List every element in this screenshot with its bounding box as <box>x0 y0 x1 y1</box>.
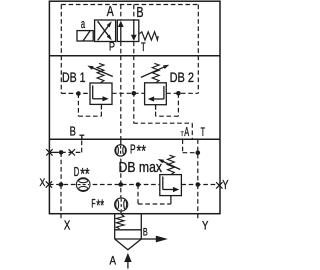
svg-text:D: D <box>74 165 80 179</box>
svg-text:B: B <box>143 227 148 239</box>
svg-text:A: A <box>110 256 117 268</box>
svg-text:F: F <box>91 199 95 211</box>
svg-text:DB 1: DB 1 <box>62 69 86 85</box>
svg-text:a: a <box>81 17 85 31</box>
svg-text:**: ** <box>80 165 90 183</box>
svg-text:T: T <box>201 125 206 139</box>
svg-text:A: A <box>184 125 189 139</box>
svg-text:DB max: DB max <box>119 160 163 176</box>
svg-text:A: A <box>107 3 114 20</box>
svg-text:B: B <box>136 4 143 21</box>
svg-text:P: P <box>130 142 136 156</box>
svg-text:X: X <box>40 177 46 189</box>
svg-text:Y: Y <box>222 178 229 192</box>
svg-text:T: T <box>141 42 146 54</box>
svg-text:P: P <box>109 40 115 54</box>
svg-text:B: B <box>70 124 76 139</box>
svg-text:**: ** <box>137 142 147 160</box>
svg-text:T: T <box>181 131 184 138</box>
svg-text:**: ** <box>96 197 104 215</box>
svg-text:DB 2: DB 2 <box>170 69 195 85</box>
svg-text:X: X <box>64 217 71 232</box>
svg-text:Y: Y <box>202 218 208 232</box>
